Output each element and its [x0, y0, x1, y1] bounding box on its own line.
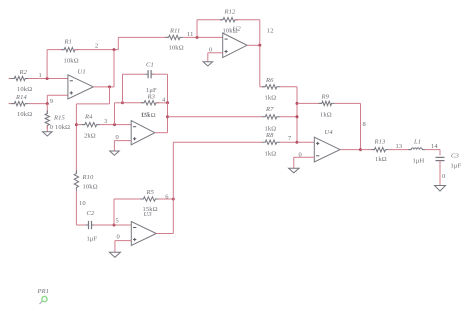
resistor R14: [9, 94, 33, 118]
junction node 8: [359, 148, 362, 151]
svg-text:10: 10: [79, 200, 86, 207]
ground U2: [203, 46, 223, 66]
svg-text:1μF: 1μF: [451, 163, 462, 170]
svg-text:0 10kΩ: 0 10kΩ: [50, 124, 70, 131]
node 13: [396, 143, 403, 150]
resistor R7: [262, 106, 280, 133]
svg-text:11: 11: [187, 31, 194, 38]
junction node 4: [166, 101, 169, 104]
wire U4 plus: [297, 141, 314, 143]
resistor R4: [76, 114, 100, 140]
wire node 1: [28, 78, 68, 80]
capacitor C1: [145, 62, 157, 95]
node 1: [39, 72, 42, 79]
svg-text:R12: R12: [224, 9, 237, 16]
wire R1 to node 2: [75, 49, 118, 51]
svg-text:R6: R6: [265, 77, 274, 84]
junction node 5: [113, 224, 116, 227]
wire R7 left: [168, 116, 263, 118]
svg-text:R1: R1: [64, 39, 73, 46]
capacitor C3: [436, 153, 462, 170]
wire feedback stub: [115, 103, 123, 125]
wire R7 right: [280, 116, 297, 118]
svg-text:4: 4: [162, 97, 166, 104]
svg-text:R5: R5: [146, 189, 155, 196]
resistor R8: [262, 132, 280, 158]
svg-text:U3: U3: [144, 211, 153, 218]
node 4: [162, 97, 166, 104]
svg-text:U5: U5: [142, 111, 151, 118]
svg-text:R7: R7: [265, 106, 274, 113]
wire node 13: [389, 149, 412, 151]
wire node 10: [76, 191, 86, 225]
svg-text:R3: R3: [147, 94, 156, 101]
svg-text:R11: R11: [169, 28, 180, 35]
resistor R10: [74, 170, 97, 190]
wire R8 left: [173, 141, 262, 143]
svg-text:U1: U1: [78, 69, 86, 76]
wire bus vertical: [296, 87, 298, 142]
wire node 3: [100, 124, 131, 126]
wire U2 output: [247, 44, 260, 46]
resistor R3: [123, 94, 160, 120]
resistor R6: [260, 77, 280, 102]
svg-text:R15: R15: [53, 115, 66, 122]
resistor R12: [220, 9, 238, 22]
node 14: [431, 143, 438, 150]
svg-text:C3: C3: [451, 153, 459, 160]
ground U3: [109, 234, 131, 258]
wire node2 down to output: [113, 50, 115, 87]
svg-text:6: 6: [165, 194, 169, 201]
wire U1 output: [93, 86, 114, 88]
svg-text:9: 9: [50, 98, 53, 105]
svg-text:2kΩ: 2kΩ: [84, 133, 96, 140]
svg-text:PR1: PR1: [37, 288, 50, 295]
svg-text:12: 12: [267, 27, 274, 34]
resistor R9: [319, 94, 335, 119]
svg-text:R4: R4: [84, 114, 93, 121]
svg-text:1kΩ: 1kΩ: [265, 95, 277, 102]
resistor R13: [361, 139, 389, 164]
junction R7 branch: [166, 115, 169, 118]
svg-text:0: 0: [299, 152, 302, 159]
wire R5 left: [114, 199, 143, 225]
node 11: [187, 31, 194, 38]
ground U4: [289, 152, 315, 173]
resistor R11: [165, 28, 183, 52]
wire node 11: [183, 36, 223, 38]
wire C2 right: [94, 224, 132, 226]
capacitor C2: [86, 210, 98, 243]
inductor L1: [408, 139, 425, 165]
resistor R2: [9, 69, 33, 93]
svg-text:5: 5: [116, 218, 119, 225]
svg-text:10kΩ: 10kΩ: [17, 86, 32, 93]
op-amp U5: [131, 111, 155, 145]
svg-text:R13: R13: [374, 139, 387, 146]
wire R1 left: [47, 50, 64, 79]
svg-text:0: 0: [117, 234, 120, 241]
resistor R5: [140, 189, 158, 213]
svg-text:U4: U4: [325, 129, 334, 136]
svg-text:0: 0: [209, 46, 212, 53]
svg-text:1kΩ: 1kΩ: [265, 151, 277, 158]
node 7: [288, 135, 292, 142]
svg-text:R8: R8: [265, 132, 274, 139]
junction node 2: [113, 48, 116, 51]
node 9: [50, 98, 53, 105]
svg-text:R14: R14: [15, 94, 28, 101]
svg-text:1kΩ: 1kΩ: [375, 156, 387, 163]
wire R9 right: [335, 103, 361, 149]
resistor R1: [61, 39, 79, 65]
wire R9 left: [297, 102, 322, 104]
ground C3: [435, 186, 446, 192]
wire U4 output: [340, 149, 361, 151]
junction node 9: [46, 102, 49, 105]
junction node 6: [172, 198, 175, 201]
probe PR1: [37, 288, 50, 304]
junction R8 bus: [296, 141, 299, 144]
op-amp U4: [314, 129, 340, 162]
wire node 14: [426, 150, 441, 156]
wire C3 down: [439, 161, 441, 186]
svg-text:C2: C2: [87, 210, 95, 217]
svg-text:10kΩ: 10kΩ: [64, 58, 79, 65]
svg-text:U2: U2: [233, 26, 242, 33]
wire R12 right: [235, 20, 260, 46]
ground R15: [43, 132, 53, 136]
svg-text:10kΩ: 10kΩ: [169, 45, 184, 52]
svg-text:C1: C1: [146, 62, 154, 69]
wire U2 out down: [259, 45, 261, 87]
resistor R15: [45, 104, 70, 132]
svg-text:1μH: 1μH: [413, 158, 425, 165]
wire R5 right: [159, 198, 174, 200]
svg-text:7: 7: [288, 135, 292, 142]
svg-text:10kΩ: 10kΩ: [83, 184, 98, 191]
junction C1 left: [121, 101, 124, 104]
wire R3 right: [156, 102, 168, 104]
junction node 11: [196, 36, 199, 39]
node 2: [95, 43, 98, 50]
svg-text:1: 1: [39, 72, 42, 79]
svg-text:10kΩ: 10kΩ: [17, 111, 32, 118]
svg-text:L1: L1: [413, 139, 421, 146]
wire left vertical: [75, 104, 77, 174]
junction R4 left: [75, 123, 78, 126]
junction U2 output: [258, 44, 261, 47]
wire node2 to R11: [118, 37, 168, 49]
svg-text:0: 0: [116, 134, 119, 141]
svg-text:0: 0: [442, 173, 445, 180]
junction node 3: [113, 123, 116, 126]
svg-text:14: 14: [431, 143, 438, 150]
svg-text:R2: R2: [19, 69, 28, 76]
junction node 1: [46, 77, 49, 80]
junction U1 output: [108, 85, 111, 88]
wire C1 right: [153, 74, 168, 103]
svg-text:2: 2: [95, 43, 98, 50]
wire output down: [76, 87, 109, 104]
wire R8 right: [280, 141, 297, 143]
svg-text:R9: R9: [321, 94, 330, 101]
op-amp U3: [131, 211, 156, 245]
wire R12 left: [197, 20, 223, 38]
svg-text:13: 13: [396, 143, 403, 150]
node 3: [104, 118, 107, 125]
node 0 C3: [442, 173, 445, 180]
ground U5: [110, 134, 132, 155]
junction R9 branch: [296, 102, 299, 105]
wire U3 output: [156, 142, 173, 233]
svg-text:1μF: 1μF: [87, 236, 98, 243]
node 8: [363, 121, 366, 128]
node 6: [165, 194, 169, 201]
svg-text:1kΩ: 1kΩ: [320, 112, 332, 119]
svg-text:3: 3: [104, 118, 107, 125]
junction R7 bus: [296, 115, 299, 118]
node 12: [267, 27, 274, 34]
node 10: [79, 200, 86, 207]
op-amp U1: [68, 69, 93, 99]
wire U5 output: [155, 103, 168, 133]
wire R6 right: [280, 86, 297, 88]
op-amp U2: [223, 26, 248, 58]
svg-text:8: 8: [363, 121, 366, 128]
svg-text:R10: R10: [82, 174, 95, 181]
wire C1 left: [123, 74, 146, 103]
node 5: [116, 218, 119, 225]
wire node 9: [28, 95, 68, 103]
